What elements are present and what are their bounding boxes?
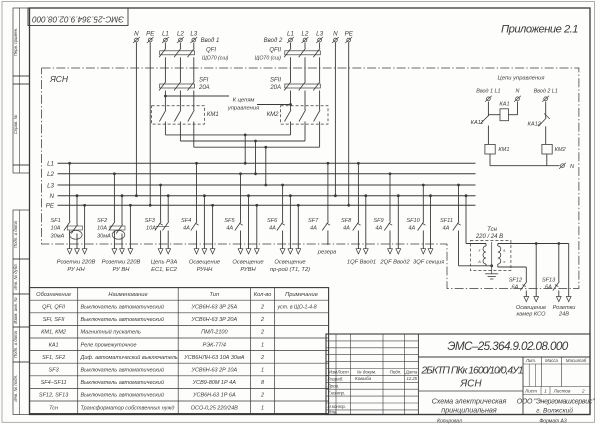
- svg-text:10А: 10А: [146, 226, 156, 232]
- svg-text:РУ НН: РУ НН: [67, 267, 85, 273]
- svg-text:Листов: Листов: [553, 389, 571, 394]
- svg-text:Лит.: Лит.: [525, 358, 536, 363]
- svg-text:КА11: КА11: [471, 120, 484, 126]
- svg-text:КМ1: КМ1: [207, 112, 219, 118]
- svg-text:2QF Ввод2: 2QF Ввод2: [379, 259, 410, 265]
- svg-text:24В: 24В: [558, 312, 569, 318]
- svg-text:2: 2: [260, 317, 264, 323]
- svg-text:SF1: SF1: [51, 218, 61, 224]
- svg-text:Тсн: Тсн: [49, 405, 58, 411]
- svg-text:6А: 6А: [512, 285, 519, 291]
- svg-text:Масштаб: Масштаб: [566, 358, 587, 363]
- svg-text:20А: 20А: [269, 85, 281, 91]
- svg-text:12.25: 12.25: [407, 376, 418, 381]
- svg-text:резерв: резерв: [317, 250, 337, 256]
- svg-text:РУВН: РУВН: [240, 267, 256, 273]
- svg-text:Приложение 2.1: Приложение 2.1: [501, 24, 578, 36]
- svg-text:А: А: [477, 259, 481, 264]
- svg-text:Кол-во: Кол-во: [254, 292, 272, 298]
- svg-text:Примечание: Примечание: [285, 292, 318, 298]
- svg-text:ООО "Энергомашсервис": ООО "Энергомашсервис": [517, 398, 595, 405]
- svg-text:N: N: [333, 31, 338, 38]
- svg-text:6А: 6А: [545, 285, 552, 291]
- svg-text:ЭМС–25.364.9.02.08.000: ЭМС–25.364.9.02.08.000: [447, 340, 568, 353]
- svg-text:2: 2: [260, 393, 264, 399]
- svg-text:PE: PE: [46, 203, 55, 210]
- svg-text:КМ2: КМ2: [555, 147, 567, 153]
- svg-text:Справ. №: Справ. №: [13, 114, 18, 134]
- svg-text:N: N: [516, 89, 520, 95]
- svg-text:30мА: 30мА: [51, 234, 65, 240]
- svg-text:Наименование: Наименование: [108, 292, 147, 298]
- svg-text:УСВ6Н-63 3Р 20А: УСВ6Н-63 3Р 20А: [190, 317, 237, 323]
- svg-text:Формат А3: Формат А3: [539, 418, 567, 424]
- svg-text:Масса: Масса: [545, 358, 559, 363]
- svg-text:10А: 10А: [97, 226, 107, 232]
- svg-text:КМ1, КМ2: КМ1, КМ2: [41, 330, 66, 336]
- svg-text:ЯСН: ЯСН: [459, 379, 482, 390]
- svg-text:PE: PE: [345, 31, 354, 38]
- svg-text:SF3: SF3: [145, 218, 156, 224]
- svg-text:1QF Ввод1: 1QF Ввод1: [347, 259, 376, 265]
- svg-text:РЭК-77/4: РЭК-77/4: [203, 342, 226, 348]
- svg-text:ОСО-0,25 220/24В: ОСО-0,25 220/24В: [191, 405, 238, 411]
- svg-text:Цепи управления: Цепи управления: [498, 76, 545, 82]
- svg-text:принципиальная: принципиальная: [441, 405, 497, 414]
- svg-text:SF12: SF12: [509, 278, 523, 284]
- svg-text:пр-рой (Т1, Т2): пр-рой (Т1, Т2): [270, 266, 310, 273]
- svg-text:Выключатель автоматический: Выключатель автоматический: [81, 367, 164, 374]
- svg-text:Розетки 220В: Розетки 220В: [102, 259, 141, 265]
- svg-text:Т.контр.: Т.контр.: [328, 390, 346, 395]
- svg-text:Ввод 1 L1: Ввод 1 L1: [476, 89, 500, 95]
- svg-text:4А: 4А: [226, 226, 233, 232]
- svg-text:SFII: SFII: [270, 78, 281, 84]
- svg-text:4А: 4А: [310, 226, 317, 232]
- svg-text:Тип: Тип: [210, 292, 220, 298]
- svg-text:Ковыба: Ковыба: [355, 376, 372, 381]
- svg-text:SF9: SF9: [373, 218, 383, 224]
- svg-text:КМ1: КМ1: [498, 147, 509, 153]
- svg-text:1: 1: [544, 389, 547, 394]
- svg-text:L2: L2: [47, 171, 54, 178]
- svg-text:Цепь РЗА: Цепь РЗА: [151, 259, 178, 265]
- svg-text:Розетки: Розетки: [553, 305, 576, 311]
- svg-text:УСВ9-80М 1Р 4А: УСВ9-80М 1Р 4А: [192, 380, 237, 386]
- svg-text:30мА: 30мА: [97, 234, 111, 240]
- svg-text:L3: L3: [47, 182, 54, 189]
- svg-text:г. Волжский: г. Волжский: [536, 406, 573, 414]
- svg-text:L2: L2: [177, 31, 184, 38]
- svg-text:КА1: КА1: [499, 101, 509, 107]
- svg-text:УСВ6Н-63 3Р 25А: УСВ6Н-63 3Р 25А: [190, 305, 237, 311]
- svg-text:SFI, SFII: SFI, SFII: [43, 317, 65, 323]
- svg-text:L1: L1: [287, 31, 294, 38]
- svg-text:Лист: Лист: [336, 369, 349, 374]
- svg-text:10А: 10А: [51, 226, 61, 232]
- svg-text:SF13: SF13: [542, 278, 556, 284]
- svg-text:КМ2: КМ2: [267, 112, 280, 118]
- svg-text:2: 2: [581, 389, 585, 394]
- svg-text:камер КСО: камер КСО: [517, 312, 547, 318]
- svg-text:Выключатель автоматический: Выключатель автоматический: [81, 304, 164, 311]
- svg-text:Освещение: Освещение: [189, 259, 221, 265]
- svg-text:Тсн: Тсн: [487, 227, 497, 233]
- svg-text:УСВ6Н-63 1Р 6А: УСВ6Н-63 1Р 6А: [192, 393, 236, 399]
- svg-text:Ввод 1: Ввод 1: [201, 38, 220, 44]
- svg-text:1: 1: [261, 368, 264, 374]
- svg-text:ЯСН: ЯСН: [49, 74, 69, 84]
- svg-text:Лист: Лист: [524, 389, 537, 394]
- svg-text:Пров.: Пров.: [328, 383, 340, 388]
- svg-text:Ввод 2 L1: Ввод 2 L1: [534, 89, 558, 95]
- svg-text:Ввод 2: Ввод 2: [264, 38, 283, 44]
- svg-text:ПМЛ-2100: ПМЛ-2100: [201, 330, 228, 336]
- svg-text:N: N: [134, 31, 139, 38]
- svg-text:Реле промежуточное: Реле промежуточное: [81, 342, 137, 348]
- svg-text:3QF секция: 3QF секция: [413, 259, 444, 265]
- svg-text:Трансформатор собственных нужд: Трансформатор собственных нужд: [81, 405, 175, 411]
- svg-text:Магнитный пускатель: Магнитный пускатель: [81, 329, 141, 336]
- svg-text:Выключатель автоматический: Выключатель автоматический: [81, 379, 164, 386]
- svg-text:SF1, SF2: SF1, SF2: [42, 355, 65, 361]
- svg-text:Взам. инв. №: Взам. инв. №: [13, 297, 18, 324]
- svg-text:Обозначение: Обозначение: [36, 292, 71, 298]
- svg-text:Освещение: Освещение: [516, 305, 546, 311]
- svg-text:уст. в ЩО-1-4-8: уст. в ЩО-1-4-8: [277, 305, 317, 311]
- svg-text:Инв. № дубл.: Инв. № дубл.: [13, 263, 18, 289]
- svg-text:SF5: SF5: [224, 218, 235, 224]
- svg-text:20А: 20А: [198, 85, 210, 91]
- svg-text:Подп. и дата: Подп. и дата: [13, 330, 18, 358]
- svg-text:Схема электрическая: Схема электрическая: [432, 396, 507, 405]
- svg-text:QFII: QFII: [269, 48, 281, 54]
- svg-text:SF4: SF4: [181, 218, 191, 224]
- svg-text:1: 1: [261, 342, 264, 348]
- svg-text:QFI, QFII: QFI, QFII: [42, 305, 65, 311]
- svg-text:УСВ6НЛН-63 10А 30мА: УСВ6НЛН-63 10А 30мА: [183, 355, 245, 361]
- svg-text:N: N: [50, 193, 55, 200]
- svg-text:Перв. примен.: Перв. примен.: [13, 28, 18, 57]
- svg-text:SF11: SF11: [440, 218, 453, 224]
- svg-text:РУНН: РУНН: [197, 267, 213, 273]
- svg-text:Освещение: Освещение: [232, 259, 264, 265]
- svg-text:КА1: КА1: [49, 342, 59, 348]
- svg-text:РУ ВН: РУ ВН: [113, 267, 131, 273]
- svg-text:SF12, SF13: SF12, SF13: [39, 393, 69, 399]
- svg-text:SF3: SF3: [49, 368, 60, 374]
- svg-text:4А: 4А: [269, 226, 276, 232]
- svg-text:2: 2: [260, 330, 264, 336]
- svg-text:Разраб.: Разраб.: [328, 377, 344, 382]
- svg-text:SFI: SFI: [199, 78, 209, 84]
- svg-text:Инв. № подл.: Инв. № подл.: [13, 375, 18, 402]
- svg-text:Подп.: Подп.: [390, 369, 402, 374]
- svg-text:КА12: КА12: [528, 121, 542, 127]
- svg-text:1: 1: [261, 405, 264, 411]
- svg-text:L1: L1: [47, 161, 54, 168]
- svg-text:L1: L1: [162, 31, 169, 38]
- svg-text:220 / 24 В: 220 / 24 В: [475, 234, 503, 240]
- svg-text:4А: 4А: [375, 226, 382, 232]
- svg-text:4А: 4А: [183, 226, 190, 232]
- svg-text:Утв.: Утв.: [328, 410, 338, 415]
- svg-text:4А: 4А: [443, 226, 450, 232]
- svg-text:Дата: Дата: [405, 369, 418, 374]
- svg-text:L2: L2: [302, 31, 309, 38]
- svg-text:L3: L3: [316, 31, 323, 38]
- svg-text:Подп. и дата: Подп. и дата: [13, 220, 18, 248]
- svg-text:ЭМС-25.364.9.02.08.000: ЭМС-25.364.9.02.08.000: [32, 15, 124, 24]
- svg-text:2БКТП ПКк 1600/10/0,4У1: 2БКТП ПКк 1600/10/0,4У1: [420, 366, 522, 377]
- svg-text:ЕС1, ЕС2: ЕС1, ЕС2: [151, 267, 178, 273]
- svg-text:SF8: SF8: [341, 218, 352, 224]
- svg-text:Освещение: Освещение: [274, 259, 306, 265]
- svg-text:Диф. автоматический выключател: Диф. автоматический выключатель: [80, 354, 178, 361]
- svg-text:УСВ6Н-63 2Р 10А: УСВ6Н-63 2Р 10А: [190, 368, 237, 374]
- svg-text:L3: L3: [190, 31, 197, 38]
- svg-text:SF7: SF7: [308, 218, 319, 224]
- svg-text:Изм: Изм: [329, 369, 337, 374]
- svg-text:Копировал: Копировал: [437, 418, 462, 424]
- svg-text:2: 2: [260, 305, 264, 311]
- svg-text:4А: 4А: [408, 226, 415, 232]
- svg-text:Выключатель автоматический: Выключатель автоматический: [81, 392, 164, 399]
- svg-text:Розетки 220В: Розетки 220В: [57, 259, 96, 265]
- svg-text:4А: 4А: [343, 226, 350, 232]
- svg-text:К цепям: К цепям: [233, 98, 255, 104]
- svg-text:№ докум.: № докум.: [357, 369, 376, 374]
- svg-text:управления: управления: [227, 106, 259, 112]
- svg-text:SF2: SF2: [97, 218, 108, 224]
- svg-text:QFI: QFI: [206, 48, 216, 54]
- svg-text:ЩО70 (сш): ЩО70 (сш): [255, 55, 282, 61]
- svg-text:SF10: SF10: [406, 218, 420, 224]
- svg-text:Выключатель автоматический: Выключатель автоматический: [81, 316, 164, 323]
- svg-text:ЩО70 (сш): ЩО70 (сш): [202, 55, 229, 61]
- svg-text:Н.контр.: Н.контр.: [328, 404, 347, 409]
- svg-text:SF4–SF11: SF4–SF11: [41, 380, 67, 386]
- svg-text:PE: PE: [146, 31, 155, 38]
- svg-text:SF6: SF6: [267, 218, 278, 224]
- svg-text:2: 2: [260, 355, 264, 361]
